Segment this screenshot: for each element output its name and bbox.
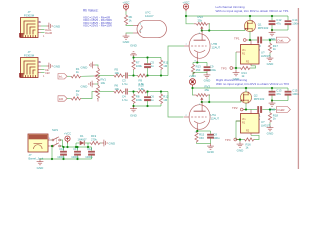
junction R17 node [269, 39, 271, 41]
resistor R10 series [137, 84, 148, 94]
wire R9 to riser [148, 75, 169, 77]
junction at C6 top [146, 90, 148, 92]
ground heater [123, 34, 131, 45]
junction ground rail [51, 158, 53, 160]
svg-text:With no input signal, trim RV2: With no input signal, trim RV2 to obtain… [216, 9, 289, 13]
svg-text:PJ302M: PJ302M [24, 53, 35, 57]
wire vdc to trimmer left [193, 88, 194, 95]
junction rail at C5 [146, 56, 148, 58]
junction jack sleeve [51, 145, 53, 147]
svg-text:+VCC: +VCC [64, 132, 71, 136]
resistor R9 series [137, 74, 148, 86]
label RV1 value [101, 78, 107, 86]
wire TP1 to cap C10 [248, 39, 257, 41]
trimmer RV2 [194, 15, 210, 31]
svg-text:+VDC: +VDC [189, 74, 196, 78]
power +VCC heater [122, 0, 129, 11]
resistor R13 cathode [191, 63, 201, 77]
wire cathode rail bottom 2 [197, 143, 211, 145]
junction rail taps [62, 146, 64, 148]
wire J1 sleeve to ground [41, 25, 47, 27]
wire cathode rail top 2 [197, 130, 211, 132]
svg-text:GND: GND [54, 25, 62, 29]
connector J1 audio jack PJ320A [19, 10, 38, 38]
svg-text:150: 150 [196, 68, 201, 72]
wire J1 tip [41, 29, 45, 31]
wire C10 to OutL [262, 39, 276, 41]
test point TP3 [221, 66, 235, 70]
diode D1 [78, 134, 88, 145]
svg-text:12AU7: 12AU7 [212, 45, 221, 49]
junction rail2 at C6 [146, 105, 148, 107]
svg-text:MPF102: MPF102 [258, 26, 269, 30]
svg-text:100n: 100n [292, 92, 299, 96]
capacitor C12 supply left [269, 16, 282, 30]
junction caps bottom 2 [271, 99, 273, 101]
power +VCC supply [64, 132, 71, 144]
ground TP3 node [233, 68, 241, 81]
junction riser plate wire 2 [208, 101, 210, 103]
svg-text:GND: GND [207, 150, 215, 154]
svg-text:TP4: TP4 [225, 138, 231, 142]
svg-text:10k: 10k [101, 81, 106, 85]
svg-text:TP1: TP1 [234, 36, 240, 40]
wire Q1 source down [249, 31, 251, 40]
svg-text:1.5u: 1.5u [122, 98, 128, 102]
regulator U4 rect [236, 110, 272, 136]
svg-text:GND: GND [109, 142, 117, 146]
wire Q2 source down [245, 103, 247, 110]
wire U3 adj loop [235, 52, 237, 68]
pin stubs J1 [38, 22, 41, 33]
resistor R14 [240, 66, 251, 78]
capacitor C10 output left [256, 37, 263, 52]
junction at R11 bottom [160, 74, 162, 76]
wire switch pole2 out [61, 146, 63, 147]
capacitor C8 cathode 2 [207, 131, 220, 144]
wire heater pin 2 to ground [126, 32, 133, 35]
pin stubs J2 [38, 62, 41, 73]
wire InL to R1 [67, 75, 71, 77]
junction at C5 bottom [146, 74, 148, 76]
ground upper left-channel [130, 43, 138, 57]
wire J2 sleeve to ground [41, 65, 47, 67]
ground pot B (rotated left) [81, 81, 95, 89]
note right channel trimming [216, 78, 289, 86]
svg-text:25k: 25k [198, 18, 203, 22]
wire ground rail bottom [40, 158, 92, 160]
capacitor C9 cathode [204, 63, 217, 73]
power +VCC left channel [182, 0, 189, 11]
svg-text:1000u: 1000u [85, 155, 93, 159]
wire vcc supply stem [67, 143, 69, 147]
test point TP4 [225, 138, 239, 142]
svg-text:GND: GND [130, 43, 138, 47]
connector J2 audio jack PJ320A [19, 50, 38, 78]
wire bias rail right channel [134, 105, 162, 107]
svg-text:Barrel_Jack: Barrel_Jack [29, 156, 44, 160]
wire diode row [76, 142, 80, 144]
junction riser plate wire [208, 29, 210, 31]
capacitor C13 supply right [269, 88, 282, 101]
svg-text:1.5u: 1.5u [122, 82, 128, 86]
svg-text:100n: 100n [292, 22, 299, 26]
test point TP2 [232, 106, 245, 111]
potentiometer RV1 gang A [94, 66, 100, 85]
junction cathode [196, 61, 198, 63]
junction wiper node 2 [201, 101, 203, 103]
resistor R7 [132, 58, 143, 76]
capacitor C18 [85, 147, 95, 159]
wire TP3 row [235, 67, 241, 69]
svg-text:25k: 25k [205, 88, 210, 92]
junction Q2 source row [245, 108, 247, 110]
capacitor C14 supply left [285, 16, 299, 30]
wire sleeve down to ground rail [51, 146, 53, 159]
label OutR global [276, 107, 290, 113]
resistor R18 [268, 110, 278, 126]
ground supply caps right [269, 101, 277, 112]
connector J3 barrel jack [28, 134, 52, 160]
tube U?C heater unit 12AU7 [137, 11, 167, 38]
svg-text:100u: 100u [210, 68, 217, 72]
svg-text:C16: C16 [59, 147, 64, 151]
resistor R6 [114, 84, 125, 94]
label InR global [58, 96, 67, 101]
svg-text:10k: 10k [115, 87, 120, 91]
svg-text:Rb Values:: Rb Values: [83, 9, 98, 13]
wire InR to R2 [67, 98, 71, 100]
junction vcc left [185, 15, 187, 17]
heater pin stubs [133, 26, 139, 34]
ground R18 [267, 125, 275, 135]
svg-text:GND: GND [269, 37, 277, 41]
junction rail at R7 [132, 56, 134, 58]
power +VDC right channel [189, 74, 196, 87]
wire jack to switch pole1 [51, 139, 54, 141]
svg-text:1: 1 [43, 35, 45, 38]
svg-text:GND: GND [81, 65, 89, 69]
wire U4 adj loop [236, 121, 241, 140]
svg-text:With no input signal, trim RV3: With no input signal, trim RV3 to obtain… [216, 82, 289, 86]
svg-text:12AU7: 12AU7 [211, 116, 220, 120]
junction caps bottom [271, 29, 273, 31]
wire C3 to node [128, 75, 137, 77]
wire TP4 row [239, 139, 245, 141]
wire R5 to C3 [123, 75, 126, 77]
svg-text:PJ302M: PJ302M [24, 13, 35, 17]
svg-text:GND: GND [37, 166, 45, 169]
svg-text:6.8k: 6.8k [139, 87, 145, 91]
JFET Q1 MPF102 [244, 20, 268, 31]
note left channel trimming [216, 5, 289, 13]
wire trimmer right to riser [208, 95, 211, 102]
svg-text:SW1: SW1 [52, 128, 59, 132]
wire vdc stem [192, 87, 194, 88]
svg-text:1N4007: 1N4007 [78, 138, 88, 142]
wire Q2 drain to rail [245, 88, 247, 92]
ground right rotated [102, 140, 117, 147]
wire C4 to node [128, 91, 137, 93]
resistor R8 [132, 92, 143, 107]
sheet border right edge [297, 8, 299, 169]
capacitor C4 [122, 89, 128, 103]
ground R17 [267, 56, 275, 66]
wire R6 to C4 [123, 91, 126, 93]
wire cathode rail bottom [193, 71, 207, 73]
wire J1 ring [41, 32, 45, 34]
wire pot A top to ground [95, 65, 98, 66]
junction rail2 at R8 [132, 105, 134, 107]
svg-text:GND: GND [54, 65, 62, 69]
wire riser to tube 2 grid [168, 92, 184, 118]
junction R18 node [269, 108, 271, 110]
svg-text:150: 150 [199, 136, 204, 140]
resistor R2 [71, 89, 82, 100]
note Rb values table [83, 9, 113, 28]
junction cathode 2 [196, 130, 198, 132]
test point TP1 [234, 36, 248, 41]
wire jack to switch pole2 [51, 145, 54, 147]
svg-text:InR: InR [59, 97, 63, 101]
wire R2 to pot B wiper [81, 92, 94, 99]
capacitor C17 [71, 147, 81, 159]
svg-text:47u: 47u [276, 92, 281, 96]
resistor R5 [114, 68, 125, 78]
wire bias rail left channel [134, 57, 162, 59]
svg-text:47u: 47u [276, 22, 281, 26]
resistor R15 cathode [195, 131, 205, 144]
svg-text:C18: C18 [87, 147, 92, 151]
wire R14 to U3 bottom [251, 66, 256, 68]
ground at J2 [47, 63, 62, 70]
junction at R12 top [160, 90, 162, 92]
svg-text:InR: InR [45, 71, 51, 75]
svg-text:5: 5 [140, 31, 142, 33]
svg-text:LM317L: LM317L [261, 54, 272, 58]
wire Q1 drain to rail [249, 16, 251, 20]
wire vcc to trimmer left [186, 16, 194, 24]
svg-text:1u: 1u [150, 64, 154, 68]
svg-text:GND: GND [269, 108, 277, 112]
svg-text:1M: 1M [163, 98, 168, 102]
wire R1 to pot wiper [81, 75, 94, 77]
wire J2 tip [41, 69, 45, 71]
wire tube1 plate to Q1 gate [202, 29, 245, 31]
junction right grid node [132, 90, 134, 92]
wire C13 C15 bottoms [272, 100, 288, 102]
svg-text:VDC=25V5 - Rb=15R: VDC=25V5 - Rb=15R [83, 24, 113, 28]
JFET Q2 MPF102 [240, 92, 264, 103]
wire supply rail [63, 146, 92, 148]
junction left grid node [132, 74, 134, 76]
junction TP4 [239, 138, 241, 140]
wire cathode rail top [193, 62, 207, 64]
resistor R1 [71, 67, 82, 78]
svg-text:LM317L: LM317L [261, 124, 272, 128]
junction C13 top [271, 87, 273, 89]
ground main [37, 159, 45, 170]
ground TP4 node [237, 140, 245, 153]
svg-text:GND: GND [130, 113, 138, 117]
resistor R16 [244, 138, 255, 150]
wire right channel signal row [99, 91, 114, 93]
resistor R19 bleeder [90, 134, 101, 144]
svg-text:12AU7: 12AU7 [145, 14, 154, 18]
wire vcc stem [185, 11, 187, 16]
regulator U3 rect [236, 40, 272, 66]
svg-text:1u: 1u [150, 98, 154, 102]
ground cathode 1 [204, 72, 212, 82]
trimmer RV3 [194, 84, 211, 102]
svg-text:TP2: TP2 [232, 106, 238, 110]
svg-text:C17: C17 [73, 147, 78, 151]
junction C12 top [271, 15, 273, 17]
junction wiper node [201, 29, 203, 31]
svg-text:GND: GND [204, 79, 212, 83]
wire R16 to U4 bottom [251, 135, 259, 139]
label InL global [58, 74, 67, 79]
junction TP3 [235, 67, 237, 69]
wire riser to tube 1 grid [168, 46, 184, 76]
capacitor C15 supply right [285, 88, 299, 101]
svg-text:1M: 1M [163, 64, 168, 68]
ground lower right-channel [130, 106, 138, 117]
svg-text:MPF102: MPF102 [254, 97, 265, 101]
svg-text:270k: 270k [91, 138, 97, 142]
wire tap up left [75, 143, 77, 147]
wire Rb to heater pin [126, 24, 133, 27]
svg-text:InL: InL [59, 75, 63, 79]
wire vcc to Rb [125, 11, 127, 14]
junction vcc supply [66, 146, 68, 148]
ground pot A (rotated left) [81, 62, 96, 70]
junction Q2 drain [245, 87, 247, 89]
wire C11 to OutR [262, 109, 276, 111]
wire tap up right [87, 143, 89, 147]
junction vdc [191, 87, 193, 89]
wire switch pole1 out [61, 140, 63, 147]
wire top rail right channel [193, 87, 289, 89]
resistor R17 [268, 40, 278, 56]
capacitor C5 [144, 58, 154, 76]
tube U?A triode 12AU7 [184, 102, 219, 133]
svg-text:100k: 100k [136, 98, 143, 102]
potentiometer RV1 gang B [94, 86, 100, 102]
svg-text:OutR: OutR [277, 108, 285, 112]
tube U?B triode 12AU7 [184, 31, 220, 63]
switch SW1 [52, 128, 60, 147]
capacitor C3 [122, 73, 128, 87]
svg-text:GND: GND [267, 131, 275, 135]
ground at J1 [47, 23, 62, 30]
ground cathode 2 [207, 144, 215, 154]
wire left channel signal row [99, 75, 114, 77]
junction Q1 drain [249, 15, 251, 17]
wire TP2 to cap C11 [244, 109, 257, 111]
wire R10 to riser [148, 91, 169, 93]
wire tube2 plate to Q2 gate [202, 100, 241, 102]
resistor R11 [159, 58, 168, 76]
svg-text:GND: GND [123, 40, 131, 44]
wire pot junction to ground [95, 83, 99, 85]
svg-text:GND: GND [81, 84, 89, 88]
svg-text:100u: 100u [213, 136, 220, 140]
junction Q1 source row [249, 39, 251, 41]
svg-text:GND: GND [237, 149, 245, 153]
svg-text:OutR: OutR [45, 31, 53, 35]
wire top rail left channel [186, 15, 288, 17]
svg-text:OutL: OutL [277, 39, 284, 43]
svg-text:4: 4 [140, 24, 142, 26]
capacitor C11 output right [256, 106, 263, 121]
ground supply caps left [269, 30, 277, 41]
wire C12 C14 bottoms [272, 29, 288, 31]
svg-text:10k: 10k [115, 71, 120, 75]
wire resistor to ground flag [101, 142, 102, 144]
resistor Rb [124, 15, 132, 26]
svg-text:TP3: TP3 [221, 66, 227, 70]
wire diode to resistor [85, 142, 90, 144]
capacitor C16 [57, 147, 67, 159]
svg-text:GND: GND [267, 62, 275, 66]
resistor R12 [159, 92, 168, 107]
capacitor C6 [144, 92, 154, 107]
wire J2 ring [41, 72, 45, 74]
svg-text:1: 1 [43, 75, 45, 78]
label OutL global [276, 37, 290, 43]
wire trimmer right to riser [208, 24, 211, 31]
svg-text:100k: 100k [136, 64, 143, 68]
